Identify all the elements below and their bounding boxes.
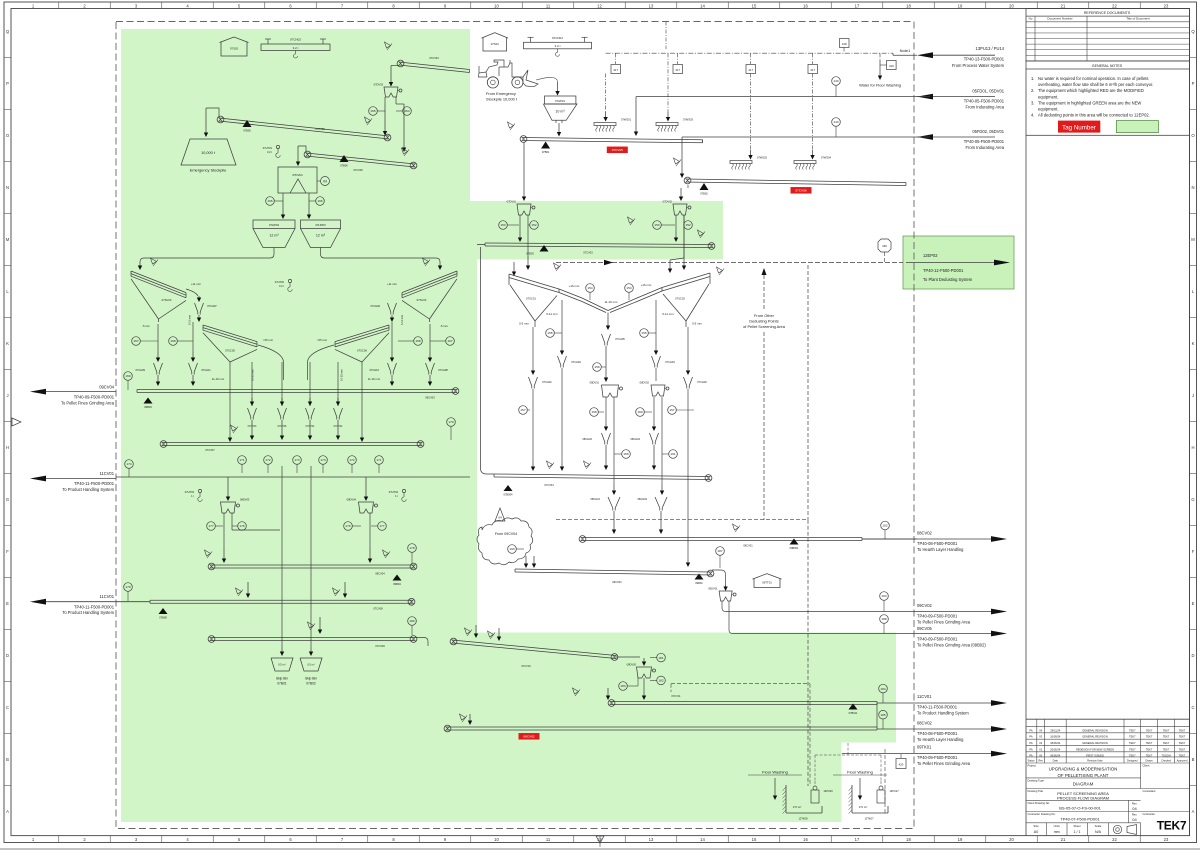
svg-text:159: 159 <box>623 452 628 456</box>
svg-text:3.2 t: 3.2 t <box>293 46 299 50</box>
svg-text:07CH04: 07CH04 <box>665 360 675 364</box>
svg-text:08CV04: 08CV04 <box>375 572 385 576</box>
svg-text:14: 14 <box>700 837 705 842</box>
svg-text:07CV08: 07CV08 <box>373 607 383 611</box>
svg-text:TP40-05-F500-PD001: TP40-05-F500-PD001 <box>964 139 1005 144</box>
revision history table <box>1026 719 1190 763</box>
svg-text:07WS01: 07WS01 <box>621 118 632 122</box>
instrument bubble 152 R <box>684 221 693 230</box>
wire 07SC02 5-11mm to chute 07CH04 <box>654 300 658 355</box>
trim line below frame <box>0 848 1200 850</box>
svg-text:N: N <box>1191 185 1194 190</box>
svg-text:153: 153 <box>500 223 505 227</box>
svg-text:04: 04 <box>1132 817 1137 822</box>
conveyor 07CV06 (to splitter 07DV04) <box>304 151 417 172</box>
svg-text:07CV10: 07CV10 <box>521 664 531 668</box>
svg-text:11-16 mm: 11-16 mm <box>212 377 225 381</box>
valve box 417 (fourth spray) <box>808 53 818 73</box>
wire 09DV01 to 09CV05 exit <box>729 601 917 634</box>
wire 07SC05 25mm stream to collecting line <box>258 345 284 380</box>
svg-text:18: 18 <box>906 837 911 842</box>
flag 07CV04 a <box>547 461 555 469</box>
svg-text:07WS03: 07WS03 <box>683 118 694 122</box>
svg-text:07S01: 07S01 <box>491 42 500 46</box>
svg-text:10,000 t: 10,000 t <box>201 151 216 155</box>
diverter 08DV04 <box>347 498 378 514</box>
svg-text:PA: PA <box>1029 728 1033 732</box>
chute 08CH01 <box>590 497 620 534</box>
svg-text:07CV09: 07CV09 <box>375 644 385 648</box>
svg-text:157: 157 <box>520 408 525 412</box>
chute 08CH04 <box>630 433 658 470</box>
red modified tag 08CV02 <box>519 733 540 740</box>
instrument bubble 184 <box>879 684 888 703</box>
chute 07CH06 right <box>370 303 396 315</box>
svg-text:13PU27: 13PU27 <box>889 789 899 793</box>
line to skip bin 07B01 <box>280 466 284 656</box>
exit 09CV02 to pellet fines grinding area <box>917 603 1007 624</box>
svg-text:07WS02: 07WS02 <box>757 156 768 160</box>
svg-text:TEK7: TEK7 <box>1146 747 1153 751</box>
overhead crane 07CN02 3.2t <box>261 38 330 59</box>
svg-text:Rev.: Rev. <box>1132 813 1138 817</box>
svg-text:09CV04: 09CV04 <box>99 384 115 389</box>
svg-text:07HP02: 07HP02 <box>269 223 280 227</box>
svg-text:07B01: 07B01 <box>542 150 550 154</box>
flag 08CV02 feed <box>460 714 468 722</box>
wire 07SC02 0-5mm to chute 07CH02 <box>686 327 690 375</box>
cloud from 09CV04 <box>477 518 533 565</box>
svg-text:F: F <box>1192 549 1195 554</box>
svg-text:Contractor: Contractor <box>1143 812 1156 816</box>
12EP02 to plant dedusting system <box>906 253 1010 282</box>
svg-text:TP40-05-F500-PD001: TP40-05-F500-PD001 <box>964 99 1005 104</box>
svg-text:177: 177 <box>208 524 213 528</box>
svg-text:C: C <box>6 705 9 710</box>
svg-text:04: 04 <box>1132 806 1137 811</box>
svg-text:From Process Water System: From Process Water System <box>952 63 1005 68</box>
wire 08DV05 to 07CV11 <box>642 678 646 700</box>
svg-text:07DV02: 07DV02 <box>663 200 673 204</box>
diverter 08DV05 <box>627 663 656 679</box>
green NEW-equipment highlighted area (main polygon) <box>121 29 896 822</box>
svg-text:Project: Project <box>1028 764 1037 768</box>
svg-text:M: M <box>323 179 326 184</box>
flag band conveyor R <box>698 230 706 238</box>
title block panel outline <box>1026 135 1190 835</box>
svg-text:N/A: N/A <box>1095 830 1102 834</box>
conveyor 07CV11 <box>608 694 877 706</box>
svg-text:07CV03: 07CV03 <box>583 251 593 255</box>
svg-text:From 09CV04: From 09CV04 <box>495 532 517 536</box>
instrument bubble 153 L <box>499 221 519 230</box>
svg-text:J: J <box>1192 393 1194 398</box>
belt weigher 07B01 <box>541 142 550 155</box>
chute 07CH09 <box>135 363 162 386</box>
wire 07SC01 0-5mm to chute 07CH01 <box>531 327 535 375</box>
svg-text:07CH11: 07CH11 <box>201 368 211 372</box>
svg-text:168: 168 <box>415 339 420 343</box>
svg-text:mm: mm <box>1054 830 1060 834</box>
svg-text:TP40-09-F500-PD001: TP40-09-F500-PD001 <box>917 614 958 619</box>
svg-text:To Pellet Fines Grinding Area: To Pellet Fines Grinding Area <box>61 401 115 406</box>
vibrating screen 07SC03 <box>131 271 186 322</box>
svg-text:TEK7: TEK7 <box>1179 728 1186 732</box>
dedusting suction point 07WS02 <box>730 74 768 170</box>
instrument bubbles 171-173 over collecting line <box>238 456 247 473</box>
svg-text:16: 16 <box>803 837 808 842</box>
svg-text:164: 164 <box>404 109 409 113</box>
chute 08CH02 <box>582 433 610 470</box>
svg-text:09CV05: 09CV05 <box>917 626 933 631</box>
svg-text:All dedusting points in this a: All dedusting points in this area will b… <box>1038 113 1150 118</box>
svg-text:155: 155 <box>641 331 646 335</box>
exit 09CV04 to pellet fines grinding area <box>30 384 116 405</box>
svg-text:07SC05: 07SC05 <box>225 349 235 353</box>
svg-text:Scale: Scale <box>1095 824 1102 828</box>
svg-text:187: 187 <box>717 549 722 553</box>
chute 07CH01 <box>529 377 553 471</box>
exit 11CV01 to product handling system <box>30 471 116 492</box>
instrument bubble 182 <box>650 676 665 685</box>
svg-text:TEK7: TEK7 <box>1129 741 1136 745</box>
belt weigher 09B04 <box>393 575 402 587</box>
svg-text:2.: 2. <box>1031 88 1034 93</box>
chute 07CH14 <box>306 362 316 440</box>
flag 08CV04 right <box>383 550 391 558</box>
svg-text:156: 156 <box>594 365 599 369</box>
svg-text:07DV01: 07DV01 <box>507 200 517 204</box>
svg-text:TEK7: TEK7 <box>1129 728 1136 732</box>
instrument bubble 155 L <box>546 329 562 338</box>
svg-text:K: K <box>1192 341 1195 346</box>
surge bin 07HP02 12 m3 <box>253 220 295 248</box>
svg-text:N: N <box>6 185 9 190</box>
wire 08DV01 to chute 08CH02 <box>604 397 608 431</box>
svg-text:H: H <box>1191 445 1194 450</box>
svg-text:143: 143 <box>833 79 838 83</box>
wire 07DV03 right leg to 07CV06 <box>396 97 406 152</box>
conveyor 08CV04 <box>208 563 417 575</box>
svg-text:REFERENCE DOCUMENTS: REFERENCE DOCUMENTS <box>1084 11 1131 15</box>
svg-text:11: 11 <box>546 837 551 842</box>
dashed dedusting header <box>556 265 808 786</box>
wire 08DV02 leg2 to chute 08CH03 <box>660 397 664 495</box>
wire band conveyor down to 07CV04 <box>481 247 495 474</box>
chute 07CH02 <box>684 377 708 567</box>
instrument bubble 187 <box>716 547 725 568</box>
svg-text:B: B <box>1192 757 1195 762</box>
svg-text:PROCESS FLOW DIAGRAM: PROCESS FLOW DIAGRAM <box>1057 795 1109 800</box>
dashed link to dedusting 12EP02 <box>556 260 903 266</box>
svg-text:Floor Washing: Floor Washing <box>762 770 788 775</box>
svg-text:Document Number: Document Number <box>1047 17 1072 21</box>
wire 07CV10 to diverter 08DV05 <box>616 657 646 666</box>
hopper 07HP01 10 m3 <box>543 82 577 123</box>
svg-text:GENERAL REVISION: GENERAL REVISION <box>1082 728 1108 732</box>
svg-text:BS-05-07-O-FS-00-001: BS-05-07-O-FS-00-001 <box>1059 805 1101 810</box>
flag 07CV08 <box>236 588 244 596</box>
conveyor 07CV04 <box>494 474 712 487</box>
arrow onto 07CV08 b <box>343 582 347 598</box>
svg-text:178: 178 <box>409 546 414 550</box>
wire chute 07CH07 down <box>197 315 201 322</box>
svg-text:185: 185 <box>880 713 885 717</box>
svg-text:DIAGRAM: DIAGRAM <box>1073 782 1094 787</box>
svg-text:162: 162 <box>882 524 887 528</box>
arrow onto 07CV11 left <box>606 688 610 700</box>
sheet centering marks <box>12 418 604 847</box>
svg-text:Note1: Note1 <box>900 48 911 53</box>
svg-text:21: 21 <box>1061 3 1066 8</box>
arrow onto 07CV08 <box>246 582 250 598</box>
svg-text:5-11 mm: 5-11 mm <box>400 315 404 325</box>
svg-text:09/05/24: 09/05/24 <box>1050 754 1061 758</box>
svg-text:22: 22 <box>1112 3 1117 8</box>
instrument bubble 155 R <box>640 329 656 338</box>
red modified tag 07CV06 <box>791 187 812 194</box>
svg-text:09CV02: 09CV02 <box>917 603 933 608</box>
instrument bubble 180 <box>408 617 417 635</box>
svg-text:07CV05: 07CV05 <box>612 148 623 152</box>
instrument bubble 168 R <box>398 337 422 346</box>
svg-text:TEK7: TEK7 <box>1179 741 1186 745</box>
conveyor 09CV01 <box>515 569 714 584</box>
conveyor 08CV02 (red tag) <box>444 725 877 732</box>
svg-text:167: 167 <box>133 339 138 343</box>
chute 08CH03 <box>637 497 667 534</box>
svg-text:171: 171 <box>239 458 244 462</box>
flag at 07CV05 right <box>365 117 373 125</box>
svg-text:Tag Number: Tag Number <box>1062 125 1096 132</box>
svg-text:173: 173 <box>320 458 325 462</box>
svg-text:TEK7: TEK7 <box>1129 747 1136 751</box>
instrument bubble 183 <box>619 678 638 690</box>
instrument bubble 153 R <box>653 221 675 230</box>
exit 11CV01 to product handling system (right) <box>877 694 1007 715</box>
svg-text:PA: PA <box>1029 747 1033 751</box>
conveyor 07CV07 <box>160 441 424 452</box>
conveyor 09CV03 <box>137 388 459 400</box>
entry from process water system 13PU13/PU14 <box>893 46 1005 68</box>
valve box 419 water for floor washing <box>880 53 896 69</box>
wire chute 07CH06 down <box>390 315 394 322</box>
reference documents table <box>1026 9 1190 61</box>
svg-text:Contractor Drawing No.: Contractor Drawing No. <box>1028 812 1056 816</box>
instrument bubble 179 <box>124 583 133 601</box>
svg-text:12 m³: 12 m³ <box>269 234 279 238</box>
svg-text:193: 193 <box>509 547 514 551</box>
svg-text:20: 20 <box>1009 837 1014 842</box>
svg-text:07HP01: 07HP01 <box>555 99 566 103</box>
crane hook 07HT04 1t <box>389 489 406 501</box>
svg-text:equipment.: equipment. <box>1038 107 1059 112</box>
dashed box floor washing battery <box>671 684 885 815</box>
svg-text:07CH01: 07CH01 <box>542 380 552 384</box>
wire 08CV02 to exit <box>877 721 1007 742</box>
instrument bubble 156 <box>593 363 606 372</box>
flag on dedusting link R <box>717 267 725 275</box>
svg-text:07B05: 07B05 <box>243 129 251 133</box>
svg-text:170: 170 <box>448 420 453 424</box>
svg-text:To Pellet Fines Grinding Area: To Pellet Fines Grinding Area <box>917 761 971 766</box>
svg-text:07CH05: 07CH05 <box>615 337 625 341</box>
wire 08DV03 to 08CV04 <box>222 513 226 563</box>
chute 07CH05 <box>602 334 626 382</box>
svg-text:5-11 mm: 5-11 mm <box>662 312 674 316</box>
svg-text:Sheet: Sheet <box>1073 824 1080 828</box>
title block project / client fields <box>1026 763 1190 836</box>
chute 07CH10 <box>369 322 396 386</box>
svg-text:Size: Size <box>1033 824 1039 828</box>
svg-text:154: 154 <box>626 286 631 290</box>
dashed wire dedusting riser <box>762 268 767 520</box>
svg-text:418: 418 <box>842 42 847 46</box>
svg-text:TP40-13-F500-PD001: TP40-13-F500-PD001 <box>964 57 1005 62</box>
svg-text:157: 157 <box>669 408 674 412</box>
svg-text:17: 17 <box>855 837 860 842</box>
instrument bubble 185 <box>879 710 888 729</box>
svg-text:J: J <box>6 393 8 398</box>
conveyor 07CV05 (to emergency stockpile) <box>217 116 391 141</box>
svg-text:21: 21 <box>1061 837 1066 842</box>
wire to diverter 08DV04 <box>364 477 368 501</box>
svg-text:184: 184 <box>880 687 885 691</box>
svg-text:16/09/24: 16/09/24 <box>1050 735 1061 739</box>
flag screen 07SC03 feed <box>151 258 159 266</box>
svg-text:09TK01: 09TK01 <box>917 745 932 750</box>
red modified tag 07CV05 <box>607 147 628 154</box>
svg-text:174: 174 <box>126 462 131 466</box>
chute 07CH11 <box>189 322 212 386</box>
instrument bubble 178 <box>408 544 417 563</box>
svg-text:11: 11 <box>546 3 551 8</box>
wire splitter to bin 07HP02 <box>281 193 285 219</box>
svg-text:22: 22 <box>1112 837 1117 842</box>
svg-text:To Product Handling System: To Product Handling System <box>917 710 969 715</box>
skip bin 07B02 <box>300 658 322 686</box>
svg-text:08DV05: 08DV05 <box>627 663 637 667</box>
svg-text:07CH02: 07CH02 <box>697 380 707 384</box>
svg-text:B: B <box>6 757 9 762</box>
svg-text:14: 14 <box>700 3 705 8</box>
wire 07DV01 right leg to screen 07SC01 <box>526 215 530 270</box>
vibrating screen 07SC05 <box>203 325 257 365</box>
svg-text:TP40-09-F500-PD001: TP40-09-F500-PD001 <box>74 395 115 400</box>
instrument bubble 162 <box>881 521 890 539</box>
belt weigher 09B001 <box>790 539 800 551</box>
svg-text:09CV01: 09CV01 <box>612 580 622 584</box>
svg-text:29/11/24: 29/11/24 <box>1050 728 1060 732</box>
vibrating screen 07SC04 <box>402 271 457 322</box>
svg-text:TP40-08-F500-PD001: TP40-08-F500-PD001 <box>917 731 958 736</box>
dashed battery limit boundary of pellet screening area <box>116 22 914 829</box>
svg-text:07B004: 07B004 <box>504 493 514 497</box>
svg-text:13: 13 <box>649 3 654 8</box>
belt weigher 09B03 <box>144 398 153 410</box>
svg-text:07HP03: 07HP03 <box>315 223 326 227</box>
svg-text:+16 mm: +16 mm <box>569 284 580 288</box>
svg-text:E: E <box>6 601 9 606</box>
instrument bubble 168 L <box>169 337 193 346</box>
conveyor 07CV09 <box>208 636 417 648</box>
svg-text:3.2 t: 3.2 t <box>555 44 561 48</box>
wire 08DV02 to chute 08CH04 <box>652 397 656 431</box>
surge bin 07HP03 12 m3 <box>301 220 341 248</box>
instrument bubble 169 <box>124 372 133 390</box>
diverter 07DV03 <box>374 83 402 98</box>
svg-text:OF PELLETISING PLANT: OF PELLETISING PLANT <box>1058 773 1109 778</box>
instrument bubble 165 <box>369 107 385 116</box>
svg-text:3.2 t: 3.2 t <box>279 284 284 288</box>
flag 07CV04 b <box>584 461 592 469</box>
wire bin 07HP02 to screen 07SC03 <box>138 248 274 271</box>
diverter 09DV01 <box>708 587 736 602</box>
emergency stockpile 10000t <box>181 139 236 173</box>
svg-text:To Product Handling System: To Product Handling System <box>62 487 114 492</box>
conveyor 07CV10 <box>450 638 618 668</box>
svg-text:TP40-12-F500-PD001: TP40-12-F500-PD001 <box>923 268 964 273</box>
svg-text:From Indurating Area: From Indurating Area <box>966 145 1005 150</box>
svg-text:10-25 mm: 10-25 mm <box>251 369 255 381</box>
svg-text:UPGRADING & MODERNISATION: UPGRADING & MODERNISATION <box>1049 767 1118 772</box>
instrument bubble 167 L <box>132 337 158 346</box>
arrow onto 07CV10 <box>474 625 478 638</box>
svg-text:154: 154 <box>587 286 592 290</box>
svg-text:19: 19 <box>958 837 963 842</box>
svg-text:equipment.: equipment. <box>1038 94 1059 99</box>
exit 08CV02 to hearth layer handling (mid) <box>862 531 1007 552</box>
instrument bubble 167 R <box>430 337 454 346</box>
svg-text:07B08: 07B08 <box>159 616 167 620</box>
valve box 417 (second spray) <box>673 53 683 73</box>
svg-text:Stockpile 10,000 t: Stockpile 10,000 t <box>486 97 518 102</box>
svg-text:07CH07: 07CH07 <box>207 304 217 308</box>
svg-text:D: D <box>6 653 9 658</box>
wire 07B01 discharge to diverter 07DV01 <box>522 142 526 201</box>
svg-text:12EP02: 12EP02 <box>923 253 938 258</box>
instrument bubble 181 <box>650 653 665 662</box>
wire 07SC01 5-11mm to chute 07CH03 <box>560 300 564 355</box>
diverter 08DV01 <box>590 381 623 398</box>
svg-text:<25 mm: <25 mm <box>263 338 274 342</box>
svg-text:167: 167 <box>447 339 452 343</box>
svg-text:To Product Handling System: To Product Handling System <box>62 610 114 615</box>
svg-text:Checked: Checked <box>1161 760 1171 763</box>
svg-text:07CH06: 07CH06 <box>370 304 380 308</box>
floor washing (left) <box>748 770 833 821</box>
svg-text:TEK7: TEK7 <box>1163 735 1170 739</box>
tag number legend (red modified tag sample) <box>1058 121 1100 133</box>
dedusting collector tag 349 <box>878 239 891 263</box>
flag on 07B02 feed <box>674 158 682 166</box>
svg-text:TP40-08-F500-PD001: TP40-08-F500-PD001 <box>917 541 958 546</box>
svg-text:A0: A0 <box>1034 830 1038 834</box>
svg-text:07CH09: 07CH09 <box>135 368 145 372</box>
valve box 420 <box>896 754 906 769</box>
svg-text:19: 19 <box>958 3 963 8</box>
wire 07DV01 to band conveyor <box>518 215 522 242</box>
svg-text:M: M <box>6 237 10 242</box>
svg-text:Skip Bin: Skip Bin <box>276 677 288 681</box>
instrument bubble 176 L <box>232 522 246 531</box>
svg-text:176: 176 <box>345 524 350 528</box>
svg-text:No: No <box>1029 17 1033 21</box>
svg-text:GENERAL REVISION: GENERAL REVISION <box>1082 741 1108 745</box>
flag 08CV04 left <box>205 550 213 558</box>
flag band conveyor L <box>628 217 636 225</box>
svg-text:07CH03: 07CH03 <box>571 360 581 364</box>
